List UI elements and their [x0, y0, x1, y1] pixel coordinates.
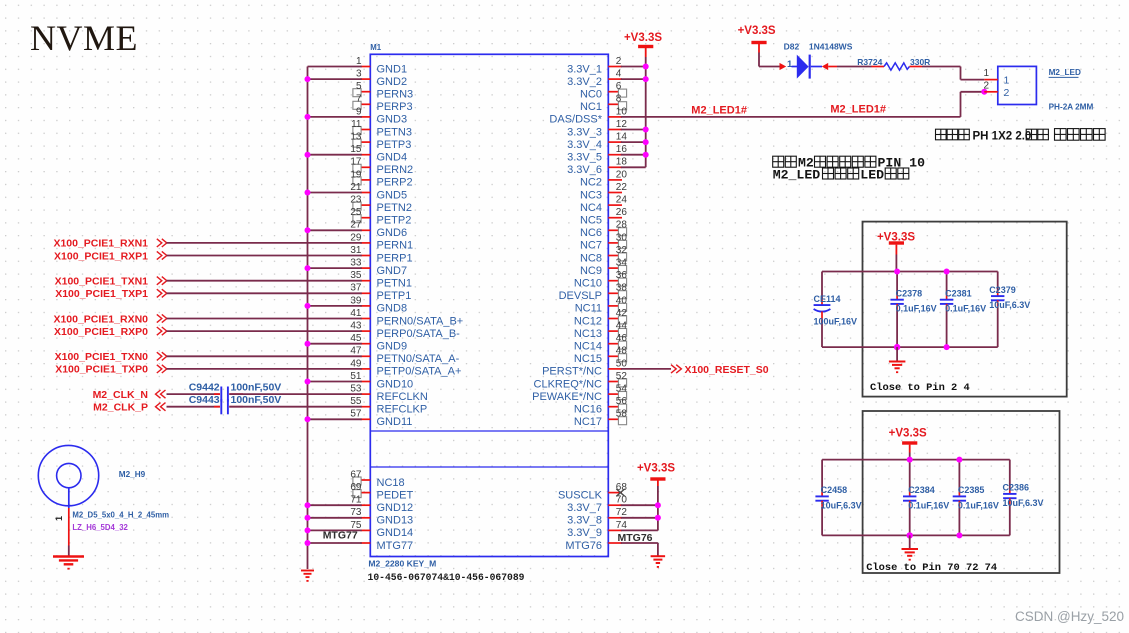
svg-text:NC5: NC5 [580, 215, 602, 227]
svg-text:M2_2280 KEY_M: M2_2280 KEY_M [368, 559, 436, 569]
svg-text:GND7: GND7 [377, 265, 408, 277]
svg-text:M2_LED1#: M2_LED1# [830, 104, 886, 116]
title NVME [30, 18, 138, 58]
svg-text:25: 25 [350, 207, 362, 218]
svg-text:3.3V_6: 3.3V_6 [567, 164, 602, 176]
svg-text:34: 34 [616, 258, 628, 269]
svg-text:35: 35 [350, 270, 362, 281]
svg-text:NC9: NC9 [580, 265, 602, 277]
svg-text:27: 27 [350, 220, 362, 231]
svg-text:PETN1: PETN1 [377, 278, 412, 290]
svg-text:67: 67 [350, 469, 362, 480]
capacitor C2385 [953, 460, 999, 536]
svg-text:30: 30 [616, 232, 628, 243]
svg-text:PETP0/SATA_A+: PETP0/SATA_A+ [377, 366, 462, 378]
svg-text:PH-2A 2MM: PH-2A 2MM [1049, 103, 1094, 112]
svg-text:NC7: NC7 [580, 240, 602, 252]
power +V3.3S bank1 [877, 231, 915, 271]
svg-text:40: 40 [616, 295, 628, 306]
svg-text:M2_LED: M2_LED [773, 167, 821, 182]
M1 no-connect markers [353, 89, 627, 498]
svg-text:100uF,16V: 100uF,16V [814, 317, 858, 327]
junction dots bottom right [655, 502, 661, 521]
svg-text:42: 42 [616, 308, 628, 319]
label M2_H9 [119, 470, 146, 479]
svg-text:PERN2: PERN2 [377, 164, 414, 176]
power +V3.3S diode branch [738, 25, 776, 67]
svg-text:39: 39 [350, 295, 362, 306]
svg-text:22: 22 [616, 182, 628, 193]
svg-text:3.3V_5: 3.3V_5 [567, 152, 602, 164]
svg-text:19: 19 [350, 169, 362, 180]
svg-text:48: 48 [616, 346, 628, 357]
capacitor C2386 [1003, 460, 1044, 536]
connector M2_LED PH-2A [983, 66, 1036, 104]
M1 right pin numbers [616, 56, 628, 531]
svg-text:71: 71 [350, 495, 362, 506]
svg-text:C2386: C2386 [1003, 483, 1030, 493]
svg-text:REFCLKN: REFCLKN [377, 391, 428, 403]
svg-text:0.1uF,16V: 0.1uF,16V [896, 304, 937, 314]
svg-text:0.1uF,16V: 0.1uF,16V [908, 501, 949, 511]
svg-text:72: 72 [616, 507, 628, 518]
svg-text:43: 43 [350, 321, 362, 332]
svg-text:5: 5 [356, 81, 362, 92]
svg-text:GND3: GND3 [377, 114, 408, 126]
svg-text:M2_CLK_P: M2_CLK_P [93, 402, 148, 414]
svg-text:NC18: NC18 [377, 477, 405, 489]
svg-text:31: 31 [350, 245, 362, 256]
ground symbol bank2 [902, 535, 919, 560]
port X100_PCIE1_TXN0 [55, 351, 362, 363]
svg-text:53: 53 [350, 384, 362, 395]
svg-text:X100_PCIE1_TXP0: X100_PCIE1_TXP0 [55, 364, 148, 376]
svg-text:PERP1: PERP1 [377, 252, 413, 264]
junction dots left bus [305, 76, 311, 546]
svg-text:X100_PCIE1_RXP0: X100_PCIE1_RXP0 [54, 326, 148, 338]
svg-text:GND5: GND5 [377, 189, 408, 201]
svg-text:MTG76: MTG76 [565, 540, 602, 552]
svg-text:+V3.3S: +V3.3S [889, 428, 927, 440]
svg-text:X100_PCIE1_TXN1: X100_PCIE1_TXN1 [55, 276, 149, 288]
label M2_D5_5x0_4_H_2_45mm [72, 511, 169, 520]
port X100_PCIE1_RXP1 [54, 250, 362, 262]
svg-text:100nF,50V: 100nF,50V [231, 394, 282, 406]
svg-text:1: 1 [983, 68, 989, 79]
net label M2_LED [1049, 68, 1081, 77]
port M2_CLK_N [93, 389, 220, 401]
wire V3.3S to diode anode [759, 63, 786, 70]
port X100_PCIE1_TXN1 [55, 276, 362, 288]
svg-text:2: 2 [616, 56, 622, 67]
net label M2_LED1# left [691, 105, 747, 117]
svg-text:18: 18 [616, 157, 628, 168]
svg-text:36: 36 [616, 270, 628, 281]
svg-text:MTG77: MTG77 [323, 530, 358, 542]
watermark CSDN [1015, 609, 1124, 624]
svg-text:GND2: GND2 [377, 76, 408, 88]
svg-text:PERP3: PERP3 [377, 101, 413, 113]
svg-text:3.3V_4: 3.3V_4 [567, 139, 602, 151]
svg-text:PERN1: PERN1 [377, 240, 414, 252]
svg-text:2: 2 [983, 80, 989, 91]
svg-text:PERN0/SATA_B+: PERN0/SATA_B+ [377, 315, 464, 327]
svg-text:PETN3: PETN3 [377, 126, 412, 138]
svg-text:1: 1 [1004, 75, 1010, 87]
svg-text:52: 52 [616, 371, 628, 382]
svg-text:PERN3: PERN3 [377, 89, 414, 101]
svg-text:M2_LED1#: M2_LED1# [691, 105, 747, 117]
svg-text:3.3V_3: 3.3V_3 [567, 126, 602, 138]
svg-text:1: 1 [54, 516, 64, 521]
svg-text:3: 3 [356, 69, 362, 80]
svg-text:GND8: GND8 [377, 303, 408, 315]
junction dot connector pin 2 [981, 89, 987, 95]
wire MTG76 to ground [621, 543, 658, 556]
power +V3.3S at M1 right [624, 32, 662, 57]
svg-text:9: 9 [356, 106, 362, 117]
svg-text:41: 41 [350, 308, 362, 319]
net label MTG77 [323, 530, 358, 542]
svg-text:PEDET: PEDET [377, 489, 414, 501]
svg-text:55: 55 [350, 396, 362, 407]
svg-text:16: 16 [616, 144, 628, 155]
ground symbol bank1 [889, 347, 906, 373]
svg-text:PETN2: PETN2 [377, 202, 412, 214]
port X100_PCIE1_TXP0 [55, 364, 362, 376]
resistor R3724 [857, 57, 930, 70]
ground symbol MTG76 [651, 556, 666, 568]
M1 left pin numbers [350, 56, 362, 531]
svg-text:X100_RESET_S0: X100_RESET_S0 [685, 364, 769, 376]
svg-text:NC14: NC14 [574, 341, 602, 353]
svg-text:10-456-067074&10-456-067089: 10-456-067074&10-456-067089 [368, 572, 525, 583]
svg-text:D82: D82 [784, 42, 800, 52]
connector M1 body [370, 43, 608, 557]
svg-text:15: 15 [350, 144, 362, 155]
svg-text:NC10: NC10 [574, 278, 602, 290]
mounting hole M2_H9 [38, 445, 98, 556]
svg-text:50: 50 [616, 358, 628, 369]
net label M2_LED1# right [830, 104, 886, 116]
svg-text:NVME: NVME [30, 18, 138, 58]
svg-text:C9442: C9442 [189, 382, 220, 394]
svg-text:GND10: GND10 [377, 378, 414, 390]
svg-text:C2385: C2385 [958, 485, 985, 495]
svg-text:74: 74 [616, 520, 628, 531]
svg-text:14: 14 [616, 132, 628, 143]
note: PIN 10 behaviour (Chinese) [773, 156, 925, 183]
wire diode to resistor [822, 63, 884, 70]
capacitor C2458 [815, 460, 861, 536]
svg-text:23: 23 [350, 195, 362, 206]
junction dots bank2 [907, 457, 963, 539]
wire DAS/DSS* net M2_LED1# [621, 92, 985, 117]
svg-text:1: 1 [787, 59, 793, 70]
capacitor C9443 [189, 394, 362, 414]
svg-text:GND1: GND1 [377, 63, 408, 75]
svg-text:+V3.3S: +V3.3S [624, 32, 662, 44]
svg-text:70: 70 [616, 495, 628, 506]
svg-text:12: 12 [616, 119, 628, 130]
svg-text:29: 29 [350, 232, 362, 243]
diode D82 [784, 42, 853, 79]
svg-text:7: 7 [356, 94, 362, 105]
svg-text:X100_PCIE1_RXN0: X100_PCIE1_RXN0 [53, 313, 148, 325]
svg-text:33: 33 [350, 258, 362, 269]
svg-text:10uF,6.3V: 10uF,6.3V [821, 501, 862, 511]
svg-text:46: 46 [616, 333, 628, 344]
power +V3.3S bottom right [637, 462, 675, 486]
svg-text:PEWAKE*/NC: PEWAKE*/NC [532, 391, 602, 403]
pin 1 label M2_H9 [54, 516, 64, 521]
svg-text:NC11: NC11 [575, 303, 602, 315]
net label MTG76 [618, 532, 653, 544]
svg-text:NC12: NC12 [574, 315, 602, 327]
power +V3.3S bank2 [889, 428, 927, 460]
no-connect X marker SUSCLK [616, 489, 624, 496]
junction dots bank1 [894, 269, 950, 351]
svg-text:PETP2: PETP2 [377, 215, 412, 227]
svg-text:GND12: GND12 [377, 502, 414, 514]
svg-text:PETP3: PETP3 [377, 139, 412, 151]
svg-text:GND6: GND6 [377, 227, 408, 239]
svg-text:69: 69 [350, 482, 362, 493]
svg-text:NC2: NC2 [580, 177, 602, 189]
svg-text:100nF,50V: 100nF,50V [231, 382, 282, 394]
svg-text:NC3: NC3 [580, 189, 602, 201]
svg-text:NC16: NC16 [574, 404, 602, 416]
svg-text:Close to Pin 2 4: Close to Pin 2 4 [870, 382, 970, 394]
port X100_PCIE1_RXP0 [54, 326, 362, 338]
port X100_PCIE1_RXN0 [53, 313, 361, 325]
svg-text:M2_LED: M2_LED [1049, 68, 1081, 77]
port X100_PCIE1_TXP1 [55, 288, 362, 300]
svg-text:NC15: NC15 [574, 353, 602, 365]
svg-text:NC17: NC17 [574, 416, 602, 428]
capacitor CE114 [814, 272, 858, 348]
svg-text:PETN0/SATA_A-: PETN0/SATA_A- [377, 353, 460, 365]
note: connector type (Chinese) [936, 129, 1106, 143]
svg-text:3.3V_9: 3.3V_9 [567, 527, 602, 539]
svg-text:C2379: C2379 [989, 285, 1016, 295]
svg-text:3.3V_2: 3.3V_2 [567, 76, 602, 88]
svg-text:45: 45 [350, 333, 362, 344]
svg-text:PERP0/SATA_B-: PERP0/SATA_B- [377, 328, 461, 340]
svg-text:Close to Pin 70 72 74: Close to Pin 70 72 74 [866, 562, 997, 574]
M1 part number label [368, 572, 525, 583]
svg-text:58: 58 [616, 409, 628, 420]
net label X100_RESET_S0 [671, 364, 769, 376]
svg-text:MTG76: MTG76 [618, 532, 653, 544]
svg-text:C2381: C2381 [945, 289, 972, 299]
svg-text:1N4148WS: 1N4148WS [809, 42, 853, 52]
svg-text:13: 13 [350, 132, 362, 143]
svg-text:CE114: CE114 [814, 294, 841, 304]
svg-text:GND14: GND14 [377, 527, 414, 539]
decoupling box Close to Pin 70 72 74 [863, 411, 1060, 574]
svg-text:11: 11 [351, 119, 362, 130]
svg-text:MTG77: MTG77 [377, 540, 414, 552]
port X100_PCIE1_RXN1 [53, 238, 361, 250]
capacitor C9442 [189, 382, 362, 402]
svg-text:SUSCLK: SUSCLK [558, 489, 603, 501]
svg-text:M2_H9: M2_H9 [119, 470, 146, 479]
svg-text:37: 37 [350, 283, 362, 294]
svg-text:GND11: GND11 [377, 416, 413, 428]
svg-text:44: 44 [616, 321, 628, 332]
svg-text:REFCLKP: REFCLKP [377, 404, 428, 416]
M1 footprint label M2_2280 KEY_M [368, 559, 436, 569]
svg-text:51: 51 [350, 371, 362, 382]
svg-text:X100_PCIE1_RXP1: X100_PCIE1_RXP1 [54, 250, 148, 262]
svg-text:+V3.3S: +V3.3S [738, 25, 776, 37]
svg-text:NC13: NC13 [574, 328, 602, 340]
wire PERST*/NC to X100_RESET_S0 [621, 368, 671, 370]
svg-text:49: 49 [350, 358, 362, 369]
M1 left pin stubs [360, 67, 370, 544]
svg-text:26: 26 [616, 207, 628, 218]
label PH-2A 2MM [1049, 103, 1094, 112]
svg-text:C9443: C9443 [189, 394, 220, 406]
svg-text:1: 1 [356, 56, 362, 67]
capacitor C2379 [989, 272, 1030, 348]
M1 left pin names [377, 63, 464, 552]
label LZ_H6_5D4_32 [72, 523, 128, 532]
svg-text:0.1uF,16V: 0.1uF,16V [958, 501, 999, 511]
svg-text:X100_PCIE1_RXN1: X100_PCIE1_RXN1 [53, 238, 148, 250]
junction dots right bus [643, 64, 649, 158]
M1 right pin names [532, 63, 603, 552]
svg-text:M1: M1 [370, 43, 381, 52]
ground symbol left bus [301, 571, 314, 582]
svg-text:21: 21 [350, 182, 362, 193]
svg-text:10uF,6.3V: 10uF,6.3V [1003, 498, 1044, 508]
svg-text:+V3.3S: +V3.3S [637, 462, 675, 474]
svg-text:NC4: NC4 [580, 202, 602, 214]
svg-text:CSDN @Hzy_520: CSDN @Hzy_520 [1015, 609, 1124, 624]
svg-text:73: 73 [350, 507, 362, 518]
svg-text:17: 17 [350, 157, 362, 168]
ground bus left [308, 67, 362, 570]
svg-text:56: 56 [616, 396, 628, 407]
svg-text:24: 24 [616, 195, 628, 206]
svg-text:GND4: GND4 [377, 152, 408, 164]
decoupling box Close to Pin 2 4 [863, 222, 1067, 397]
svg-text:GND9: GND9 [377, 341, 408, 353]
svg-text:C2384: C2384 [908, 485, 935, 495]
svg-text:PETP1: PETP1 [377, 290, 412, 302]
svg-text:54: 54 [616, 384, 628, 395]
svg-text:NC0: NC0 [580, 89, 602, 101]
port M2_CLK_P [93, 402, 220, 414]
svg-text:PH 1X2 2.0: PH 1X2 2.0 [973, 130, 1032, 142]
svg-text:38: 38 [616, 283, 628, 294]
svg-text:3.3V_1: 3.3V_1 [567, 63, 602, 75]
capacitor C2384 [903, 460, 949, 536]
svg-text:28: 28 [616, 220, 628, 231]
svg-text:57: 57 [350, 409, 362, 420]
svg-text:8: 8 [616, 94, 622, 105]
svg-text:3.3V_7: 3.3V_7 [567, 502, 602, 514]
svg-text:PERP2: PERP2 [377, 177, 413, 189]
svg-text:M2_CLK_N: M2_CLK_N [93, 389, 148, 401]
svg-text:X100_PCIE1_TXN0: X100_PCIE1_TXN0 [55, 351, 149, 363]
svg-text:6: 6 [616, 81, 622, 92]
bank1 bus wires [822, 272, 998, 348]
bank2 bus wires [822, 460, 1010, 536]
svg-text:DAS/DSS*: DAS/DSS* [549, 114, 602, 126]
svg-text:0.1uF,16V: 0.1uF,16V [945, 304, 986, 314]
svg-text:4: 4 [616, 69, 622, 80]
svg-text:DEVSLP: DEVSLP [559, 290, 602, 302]
3.3V bus bottom right [621, 486, 658, 530]
capacitor C2381 [940, 272, 986, 348]
capacitor C2378 [890, 272, 936, 348]
svg-text:10uF,6.3V: 10uF,6.3V [989, 300, 1030, 310]
svg-text:NC6: NC6 [580, 227, 602, 239]
svg-text:32: 32 [616, 245, 628, 256]
svg-text:X100_PCIE1_TXP1: X100_PCIE1_TXP1 [55, 288, 148, 300]
svg-text:NC8: NC8 [580, 252, 602, 264]
svg-text:LED: LED [860, 167, 884, 182]
svg-text:M2_D5_5x0_4_H_2_45mm: M2_D5_5x0_4_H_2_45mm [72, 511, 169, 520]
M1 right pin stubs [608, 67, 622, 544]
wire resistor to connector pin 1 [910, 67, 985, 80]
svg-text:CLKREQ*/NC: CLKREQ*/NC [534, 378, 603, 390]
svg-text:20: 20 [616, 169, 628, 180]
svg-text:NC1: NC1 [580, 101, 602, 113]
svg-text:C2378: C2378 [896, 289, 923, 299]
svg-text:3.3V_8: 3.3V_8 [567, 515, 602, 527]
svg-text:C2458: C2458 [821, 485, 848, 495]
ground symbol M2_H9 [53, 557, 84, 570]
svg-text:2: 2 [1004, 87, 1010, 99]
3.3V bus right of M1 [621, 57, 646, 167]
svg-text:10: 10 [616, 106, 628, 117]
svg-text:47: 47 [350, 346, 362, 357]
svg-text:R3724: R3724 [857, 57, 882, 67]
svg-text:LZ_H6_5D4_32: LZ_H6_5D4_32 [72, 523, 128, 532]
svg-text:PERST*/NC: PERST*/NC [542, 366, 602, 378]
svg-text:GND13: GND13 [377, 515, 414, 527]
